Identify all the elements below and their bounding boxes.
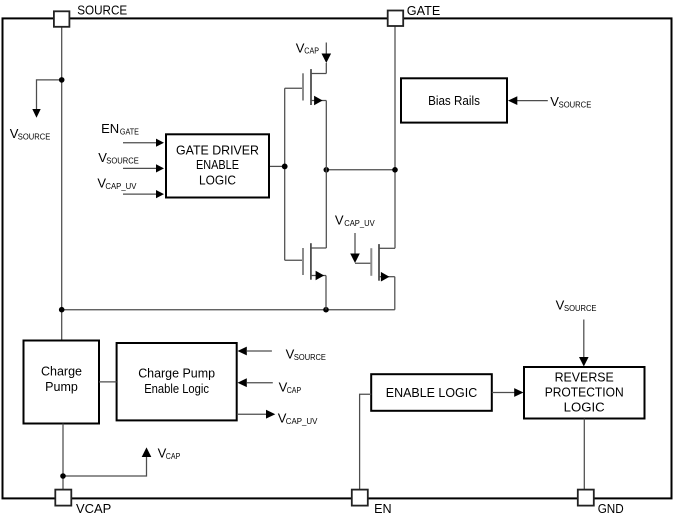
block ENABLE LOGIC [371,374,492,411]
svg-text:REVERSE: REVERSE [555,370,614,384]
drain lead Q2 [311,247,326,249]
arrowhead V_SOURCE stub down [32,109,40,118]
node junction rail / left NMOS source [323,307,329,313]
svg-text:CAP: CAP [287,385,302,395]
gate bar Q2 [302,248,304,275]
svg-text:SOURCE: SOURCE [294,352,326,362]
block Charge Pump Enable Logic [117,343,237,420]
svg-text:GATE DRIVER: GATE DRIVER [176,143,259,157]
block REVERSE PROTECTION LOGIC [524,367,645,419]
wire gate driver output to gate node [270,165,285,167]
transistor Q1 top [285,69,327,105]
svg-text:CAP_UV: CAP_UV [105,181,136,191]
node junction SOURCE line / rail [59,307,65,313]
arrowhead V_CAP_UV out [266,410,275,419]
node junction V_CAP tap [60,473,66,479]
wire Q3 source down to rail [394,277,396,310]
pin pad SOURCE [54,11,70,26]
channel bar Q2 [310,243,312,280]
wire below arrowhead to Q1 drain [325,63,327,74]
wire Q2 source down to rail [325,276,327,310]
wire V_SOURCE down into REVERSE PROTECTION [583,320,585,358]
gate bar Q3 [370,248,372,276]
svg-text:CAP_UV: CAP_UV [344,218,375,228]
wire source rail [62,309,395,311]
arrowhead V_SOURCE CPEL [238,347,247,356]
source lead Q1 [311,100,326,102]
node gate [282,164,288,170]
wire V_SOURCE input [123,167,157,169]
svg-text:V: V [335,213,344,228]
wire common gate vertical [284,88,286,260]
drain lead Q1 [311,73,326,75]
svg-text:SOURCE: SOURCE [106,155,139,165]
wire V_CAP_UV arrow to Q3 gate [354,233,356,254]
source arrow Q1 [314,96,323,106]
svg-text:CAP: CAP [304,46,319,56]
wire GATE pad down to drain rail and PMOS drain [394,26,396,248]
node junction on SOURCE line at stub [59,77,65,83]
arrowhead V_SOURCE reverse [579,357,589,367]
svg-text:EN: EN [101,121,119,136]
svg-text:SOURCE: SOURCE [564,303,597,313]
arrowhead EN_GATE [156,139,164,147]
svg-text:Enable Logic: Enable Logic [144,382,209,396]
pin pad GATE [388,11,404,27]
arrowhead V_CAP_UV input [156,190,164,198]
channel bar Q3 [378,244,380,281]
gate bar Q1 [302,73,304,100]
wire Charge Pump to Enable Logic [99,381,117,383]
svg-text:ENABLE LOGIC: ENABLE LOGIC [386,386,477,400]
svg-text:LOGIC: LOGIC [199,174,236,188]
svg-text:LOGIC: LOGIC [564,400,605,414]
wire EN pad to ENABLE LOGIC [360,394,372,489]
drain lead Q3 [379,247,395,249]
wire SOURCE pad down to Charge Pump [61,27,63,341]
svg-text:SOURCE: SOURCE [18,132,51,142]
source arrow Q3 [381,272,390,282]
gate lead Q2 [285,259,303,261]
arrowhead V_CAP_UV down [350,254,360,264]
wire V_CAP supply into Q1 drain [325,43,327,55]
svg-text:PROTECTION: PROTECTION [545,385,624,399]
wire Charge Pump down to VCAP pad [62,424,64,491]
wire V_CAP tap [63,457,147,477]
wire V_CAP_UV input [123,193,157,195]
gate lead Q3 [355,262,371,264]
wire V_CAP into CPEL [247,382,273,384]
arrowhead into Bias Rails [508,96,517,105]
svg-text:SOURCE: SOURCE [559,99,592,109]
node drain rail right [392,167,398,173]
arrowhead V_SOURCE input [156,164,164,172]
pin pad GND [578,490,594,506]
svg-text:CAP_UV: CAP_UV [286,416,318,426]
wire V_SOURCE stub from SOURCE line [37,80,62,110]
svg-text:VCAP: VCAP [76,501,111,516]
pin pad VCAP [55,490,71,506]
svg-text:SOURCE: SOURCE [77,3,127,18]
wire mid vertical between Q1 and Q2 [325,101,327,249]
wire REVERSE PROTECTION to GND pad [583,419,585,490]
svg-text:GND: GND [598,501,624,516]
wire V_SOURCE into CPEL [247,350,272,352]
source lead Q3 [379,276,395,278]
transistor Q2 bottom left [285,243,327,310]
source lead Q2 [311,275,326,277]
svg-text:GATE: GATE [407,3,441,18]
arrowhead V_CAP tap up [142,447,152,457]
arrowhead V_CAP down [322,54,332,64]
arrowhead into REVERSE PROTECTION [514,388,523,397]
svg-text:GATE: GATE [120,127,139,137]
block Bias Rails [401,78,507,122]
wire drain rail [326,169,395,171]
channel bar Q1 [310,69,312,105]
svg-text:Bias Rails: Bias Rails [428,94,480,108]
gate lead Q1 [285,87,303,89]
wire V_SOURCE to Bias Rails [517,100,548,102]
arrowhead V_CAP CPEL [238,378,247,387]
wire V_CAP_UV output from CPEL [237,413,267,415]
svg-text:EN: EN [374,501,392,516]
wire EN_GATE input [123,142,157,144]
svg-text:Pump: Pump [45,380,78,394]
block Charge Pump [24,341,100,424]
svg-text:ENABLE: ENABLE [196,158,239,172]
node drain rail left [324,167,330,173]
transistor Q3 right [355,244,395,310]
block GATE DRIVER ENABLE LOGIC [166,134,269,197]
source arrow Q2 [316,271,325,281]
wire ENABLE LOGIC to REVERSE PROTECTION [492,392,515,394]
svg-text:CAP: CAP [166,451,181,461]
svg-text:Charge: Charge [41,365,82,379]
svg-text:Charge Pump: Charge Pump [138,366,215,380]
pin pad EN [352,490,368,506]
